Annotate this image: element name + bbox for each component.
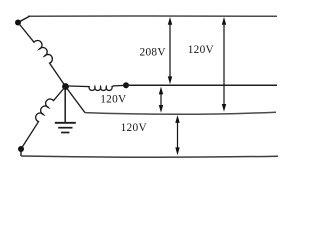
winding L1 (phase A coil) xyxy=(18,23,66,87)
node B dot xyxy=(123,82,129,88)
winding L2 (phase B coil, horizontal) xyxy=(66,85,127,90)
svg-text:120V: 120V xyxy=(121,122,148,134)
arrow 208V (top rail to phase B rail) xyxy=(168,17,172,84)
arrow 120V lower (neutral rail to bottom rail) xyxy=(175,115,179,155)
svg-text:120V: 120V xyxy=(188,44,215,56)
wire: link node C to bottom rail xyxy=(20,149,22,156)
wire: link from node A dot to top rail xyxy=(18,16,30,22)
arrow 120V tall (top rail to neutral rail) xyxy=(222,17,226,112)
arrow short (phase B rail to neutral rail) xyxy=(159,87,163,113)
node C dot xyxy=(18,146,24,152)
wire: neutral rail xyxy=(85,112,276,114)
neutral node N dot xyxy=(62,83,69,90)
wire: phase A top rail xyxy=(28,15,277,17)
ground xyxy=(55,90,76,133)
svg-text:120V: 120V xyxy=(100,94,127,106)
node A dot xyxy=(15,20,21,26)
svg-text:208V: 208V xyxy=(140,46,167,58)
wire: bottom rail xyxy=(21,156,278,157)
wire: neutral diagonal to rail xyxy=(66,87,86,113)
wire: phase B rail xyxy=(126,84,277,86)
winding L3 (phase C coil) xyxy=(21,87,66,150)
